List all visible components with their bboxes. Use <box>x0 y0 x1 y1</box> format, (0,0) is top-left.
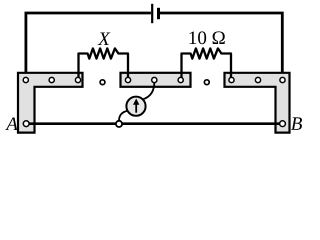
terminal hole left strip 2 <box>49 77 54 82</box>
terminal hole at B <box>280 121 286 127</box>
terminal hole right strip 1 <box>229 77 234 82</box>
copper strip right (L-shaped) <box>225 73 290 133</box>
terminal hole right strip 2 <box>255 77 260 82</box>
gap hole between left and middle strips <box>100 80 105 85</box>
copper strip left (L-shaped) <box>18 73 83 133</box>
label X <box>98 33 111 45</box>
jockey contact node <box>116 121 122 127</box>
node label B <box>291 117 302 130</box>
terminal hole middle strip 2 <box>152 77 157 82</box>
copper strip middle <box>121 73 191 87</box>
battery cell (short plate) <box>157 8 160 19</box>
node label A <box>5 117 18 130</box>
terminal hole at A <box>23 121 29 127</box>
terminal hole middle strip 3 <box>178 77 183 82</box>
galvanometer G <box>126 97 145 116</box>
galvanometer needle <box>135 104 137 113</box>
wire: battery to top-right horizontal + right vertical <box>160 13 282 80</box>
label 10 ohm <box>190 31 225 44</box>
resistor X <box>79 48 129 80</box>
terminal hole middle strip 1 <box>125 77 130 82</box>
bridge wire A-B <box>26 122 282 125</box>
gap hole between middle and right strips <box>204 80 209 85</box>
wire: galvanometer to jockey <box>119 111 128 121</box>
battery cell (long plate) <box>151 4 153 23</box>
terminal hole left strip 1 <box>23 77 28 82</box>
terminal hole left strip 3 <box>75 77 80 82</box>
wire: middle strip to galvanometer <box>143 82 155 100</box>
wire: left vertical + top-left horizontal to battery <box>26 13 151 80</box>
resistor 10 ohm <box>182 48 232 80</box>
terminal hole right strip 3 <box>280 77 285 82</box>
